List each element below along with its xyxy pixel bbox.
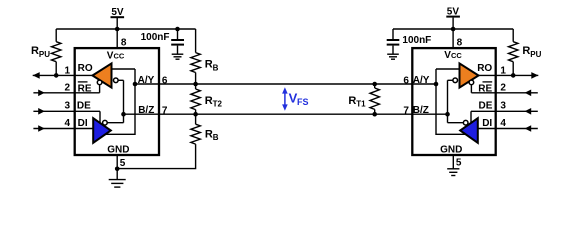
svg-text:B: B <box>213 63 219 72</box>
svg-text:1: 1 <box>64 65 70 76</box>
svg-text:RE: RE <box>78 83 92 94</box>
svg-text:RO: RO <box>78 63 93 74</box>
svg-text:RE: RE <box>478 83 492 94</box>
svg-text:8: 8 <box>457 37 463 48</box>
svg-text:5: 5 <box>456 157 462 168</box>
svg-text:GND: GND <box>107 144 129 155</box>
svg-text:5: 5 <box>120 158 126 169</box>
svg-text:7: 7 <box>403 105 409 116</box>
svg-text:FS: FS <box>297 97 309 107</box>
svg-text:DI: DI <box>78 118 88 129</box>
svg-text:DE: DE <box>478 100 492 111</box>
svg-text:CC: CC <box>451 51 462 60</box>
svg-text:100nF: 100nF <box>141 32 170 43</box>
svg-text:R: R <box>522 45 530 57</box>
svg-text:R: R <box>31 45 39 57</box>
svg-text:R: R <box>205 128 213 140</box>
svg-text:R: R <box>205 95 213 107</box>
svg-text:A/Y: A/Y <box>413 75 430 86</box>
svg-text:PU: PU <box>39 50 50 59</box>
svg-text:R: R <box>348 95 356 107</box>
svg-text:GND: GND <box>440 144 462 155</box>
svg-text:6: 6 <box>162 76 168 87</box>
svg-text:2: 2 <box>500 83 506 94</box>
svg-text:4: 4 <box>64 118 70 129</box>
svg-text:3: 3 <box>500 100 506 111</box>
svg-text:DI: DI <box>482 118 492 129</box>
svg-text:8: 8 <box>121 37 127 48</box>
svg-text:6: 6 <box>403 76 409 87</box>
svg-text:DE: DE <box>77 100 91 111</box>
svg-text:4: 4 <box>500 118 506 129</box>
svg-text:RO: RO <box>477 63 492 74</box>
svg-text:2: 2 <box>64 83 70 94</box>
svg-text:PU: PU <box>530 50 541 59</box>
svg-text:T2: T2 <box>213 100 223 109</box>
svg-text:3: 3 <box>64 100 70 111</box>
svg-text:100nF: 100nF <box>402 35 431 46</box>
svg-text:T1: T1 <box>356 100 366 109</box>
svg-text:R: R <box>205 59 213 71</box>
svg-text:CC: CC <box>114 52 125 61</box>
svg-text:1: 1 <box>500 65 506 76</box>
svg-text:B: B <box>213 133 219 142</box>
svg-text:B/Z: B/Z <box>413 105 429 116</box>
